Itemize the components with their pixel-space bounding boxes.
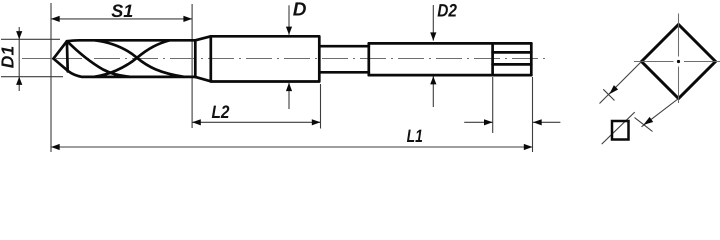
svg-text:D2: D2 (437, 1, 457, 21)
svg-text:L2: L2 (212, 102, 230, 122)
svg-text:D: D (293, 0, 307, 21)
svg-text:L1: L1 (407, 126, 423, 146)
svg-text:D1: D1 (0, 46, 18, 68)
svg-text:S1: S1 (111, 1, 133, 21)
